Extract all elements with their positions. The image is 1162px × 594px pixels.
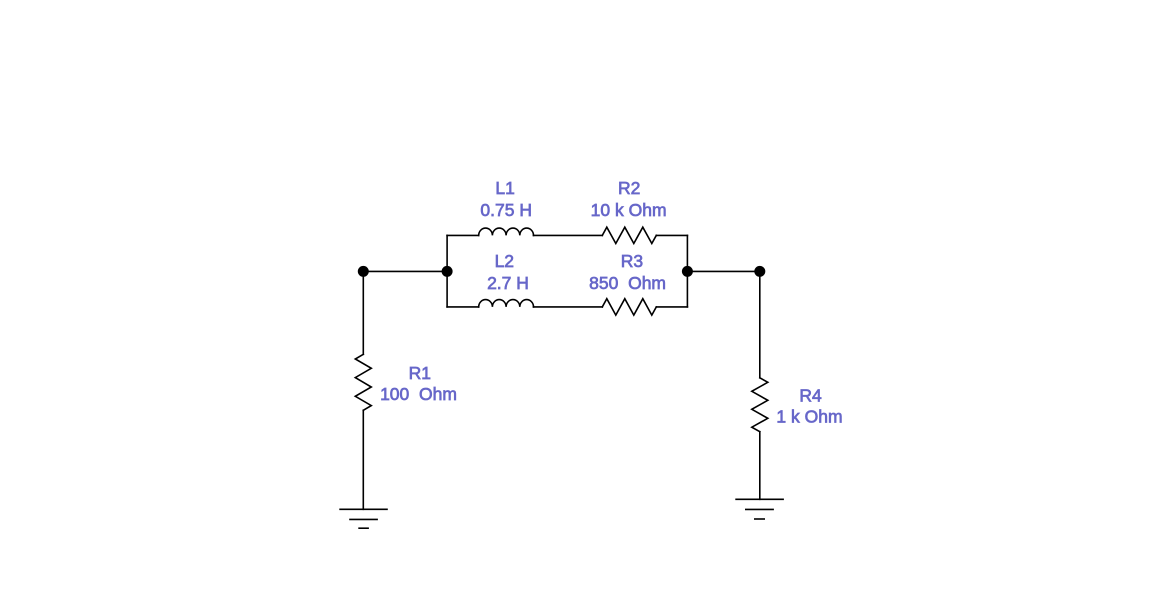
svg-text:R2: R2 <box>618 178 640 198</box>
svg-text:10 k Ohm: 10 k Ohm <box>591 200 667 220</box>
svg-text:0.75 H: 0.75 H <box>480 200 532 220</box>
svg-text:R3: R3 <box>621 251 643 271</box>
svg-text:850 Ohm: 850 Ohm <box>589 273 666 293</box>
node B junction dot <box>754 266 765 277</box>
wire top rail middle segment <box>534 234 603 236</box>
node A junction dot <box>358 266 369 277</box>
svg-text:R1: R1 <box>409 363 431 383</box>
wire bottom rail right segment <box>656 306 687 308</box>
junction dot at block left <box>442 266 453 277</box>
wire top rail left segment <box>447 234 479 236</box>
svg-text:100 Ohm: 100 Ohm <box>380 384 457 404</box>
ground left <box>340 509 387 528</box>
wire block to node B <box>687 270 759 272</box>
wire right vertical of parallel block <box>686 235 688 307</box>
wire R4 to ground <box>759 432 761 500</box>
ground right <box>736 499 783 519</box>
wire bottom rail middle segment <box>534 306 603 308</box>
wire bottom rail left segment <box>447 306 479 308</box>
svg-text:R4: R4 <box>799 386 822 406</box>
wire node A down to R1 <box>362 271 364 354</box>
wire top rail right segment <box>656 234 687 236</box>
svg-text:L1: L1 <box>495 178 514 198</box>
svg-text:1 k Ohm: 1 k Ohm <box>776 406 842 426</box>
resistor R3 <box>602 299 656 315</box>
inductor L2 <box>479 300 534 307</box>
resistor R1 <box>355 354 371 410</box>
svg-text:L2: L2 <box>495 251 514 271</box>
wire node B down to R4 <box>759 271 761 377</box>
wire node A to block <box>363 270 447 272</box>
resistor R4 <box>752 378 768 432</box>
wire R1 to ground <box>362 410 364 509</box>
wire left vertical of parallel block <box>446 235 448 307</box>
inductor L1 <box>479 228 534 235</box>
junction dot at block right <box>682 266 693 277</box>
resistor R2 <box>602 227 656 243</box>
svg-text:2.7 H: 2.7 H <box>487 273 529 293</box>
